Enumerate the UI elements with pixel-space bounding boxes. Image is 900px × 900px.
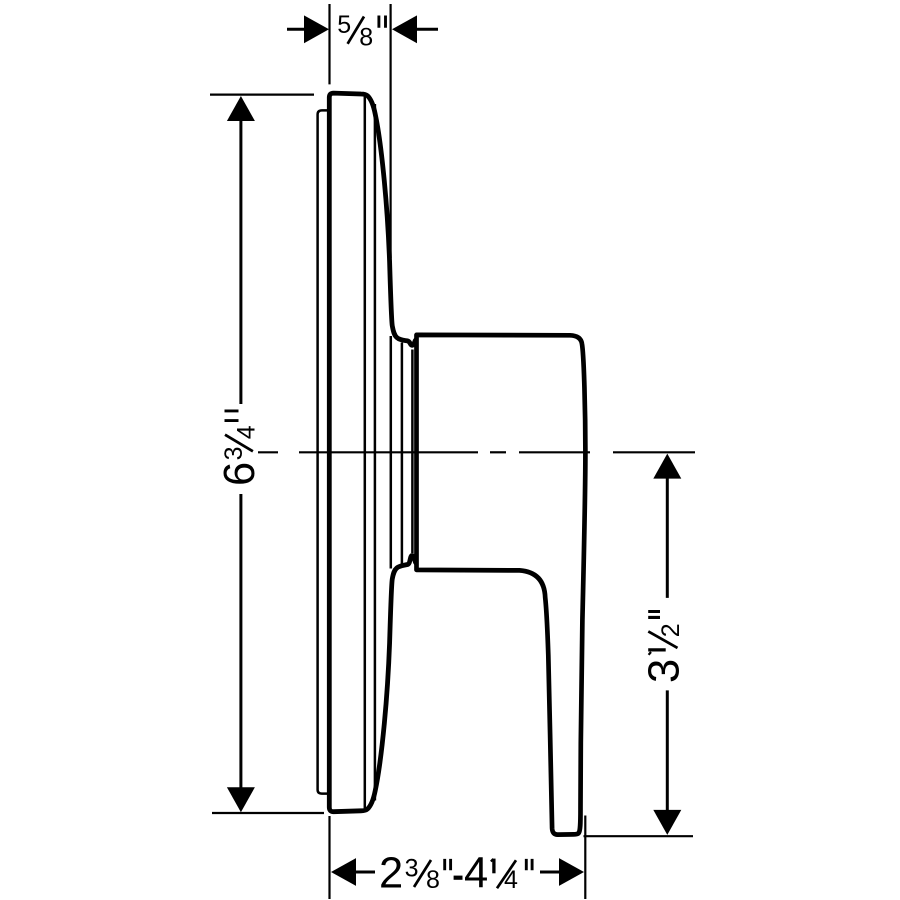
svg-text:4: 4 (233, 425, 261, 439)
svg-text:2: 2 (379, 850, 403, 898)
svg-text:2: 2 (657, 623, 685, 637)
svg-text:4: 4 (464, 850, 488, 898)
svg-text:3: 3 (220, 446, 248, 460)
svg-text:8: 8 (426, 866, 440, 894)
svg-text:3: 3 (641, 659, 689, 683)
svg-text:3: 3 (405, 854, 419, 882)
svg-text:6: 6 (216, 462, 264, 486)
svg-text:4: 4 (504, 866, 518, 894)
svg-text:8: 8 (359, 24, 373, 52)
svg-text:5: 5 (337, 11, 351, 39)
